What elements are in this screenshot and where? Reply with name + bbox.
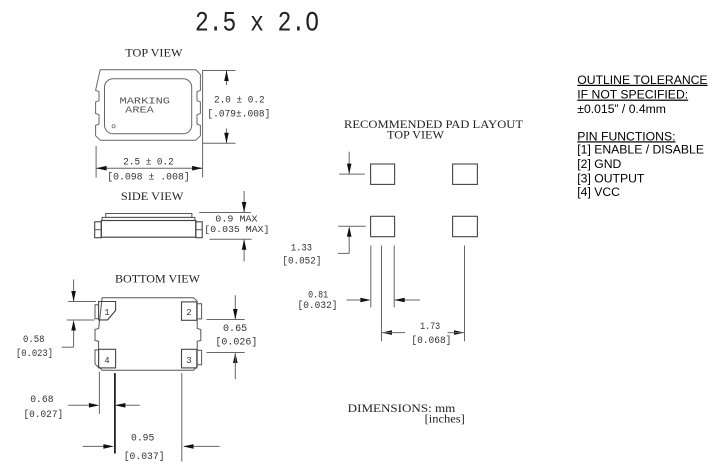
svg-text:[3] OUTPUT: [3] OUTPUT: [577, 171, 645, 185]
svg-text:1.73: 1.73: [420, 321, 440, 333]
svg-text:[0.032]: [0.032]: [298, 300, 338, 312]
svg-text:0.58: 0.58: [23, 334, 45, 346]
svg-text:2.5 ± 0.2: 2.5 ± 0.2: [123, 156, 173, 168]
svg-text:[.079±.008]: [.079±.008]: [207, 108, 270, 120]
svg-text:[0.035 MAX]: [0.035 MAX]: [204, 224, 269, 235]
svg-text:2.5 x 2.O: 2.5 x 2.O: [195, 9, 319, 40]
svg-text:0.68: 0.68: [30, 394, 53, 406]
svg-text:TOP VIEW: TOP VIEW: [125, 48, 182, 60]
svg-text:1.33: 1.33: [291, 242, 312, 254]
svg-text:±0.015” / 0.4mm: ±0.015” / 0.4mm: [577, 102, 666, 116]
svg-text:[2] GND: [2] GND: [577, 157, 621, 171]
svg-text:IF NOT SPECIFIED:: IF NOT SPECIFIED:: [577, 88, 688, 102]
svg-text:0.95: 0.95: [131, 432, 154, 444]
svg-text:AREA: AREA: [125, 106, 154, 116]
svg-text:BOTTOM VIEW: BOTTOM VIEW: [115, 273, 200, 285]
svg-text:[1] ENABLE / DISABLE: [1] ENABLE / DISABLE: [577, 142, 704, 156]
svg-text:3: 3: [186, 356, 191, 366]
svg-text:[0.023]: [0.023]: [16, 348, 53, 360]
svg-text:TOP VIEW: TOP VIEW: [387, 130, 444, 142]
svg-text:PIN FUNCTIONS:: PIN FUNCTIONS:: [577, 129, 675, 143]
svg-text:[0.026]: [0.026]: [215, 336, 257, 348]
svg-text:2.0 ± 0.2: 2.0 ± 0.2: [214, 94, 265, 106]
svg-text:OUTLINE TOLERANCE: OUTLINE TOLERANCE: [577, 73, 707, 87]
svg-text:2: 2: [186, 308, 191, 318]
svg-text:4: 4: [104, 356, 109, 366]
svg-text:[0.068]: [0.068]: [411, 335, 451, 347]
svg-text:1: 1: [104, 308, 109, 318]
svg-text:0.65: 0.65: [223, 323, 247, 335]
svg-text:0.9 MAX: 0.9 MAX: [215, 213, 258, 224]
svg-text:[inches]: [inches]: [425, 413, 465, 425]
svg-text:[0.098 ± .008]: [0.098 ± .008]: [107, 172, 190, 184]
svg-text:SIDE VIEW: SIDE VIEW: [121, 191, 184, 203]
svg-text:[4] VCC: [4] VCC: [577, 185, 620, 199]
svg-text:[0.037]: [0.037]: [124, 451, 165, 463]
svg-text:[0.027]: [0.027]: [24, 409, 64, 421]
svg-text:[0.052]: [0.052]: [282, 256, 321, 268]
